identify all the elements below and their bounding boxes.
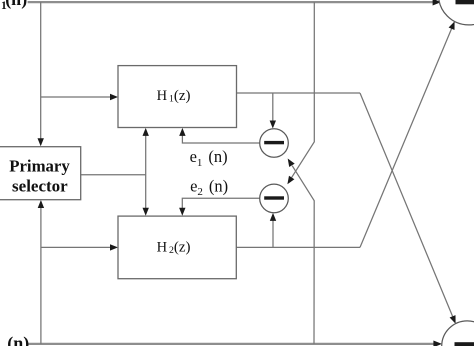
wire: branch up from H2 output into subtractor S2 — [272, 220, 274, 247]
wire: H2 output line — [237, 246, 361, 248]
svg-text:H1(z): H1(z) — [157, 88, 191, 105]
block H2: adaptive filter H2(z) — [118, 216, 236, 279]
wire: diagonal from H1 output to bottom-right output node — [360, 93, 453, 316]
e1 feedback wire from S1 to H1 — [182, 135, 260, 143]
block H1: adaptive filter H1(z) — [118, 66, 237, 128]
svg-text:selector: selector — [12, 176, 68, 195]
subtractor S2 — [260, 184, 289, 213]
e2 feedback wire from S2 to H2 — [182, 198, 260, 209]
wire: x2 reference tap up to subtractor S1 — [292, 166, 314, 344]
wire: Primary selector output to control line — [81, 174, 146, 176]
svg-text:Primary: Primary — [9, 157, 70, 176]
svg-text:(n): (n) — [5, 0, 27, 10]
wire: branch from top drop into H1 input — [41, 96, 111, 98]
svg-text:H2(z): H2(z) — [157, 239, 191, 256]
wire: H1 output line — [237, 92, 361, 94]
svg-text:e2 (n): e2 (n) — [190, 176, 228, 198]
block: Primary selector — [0, 147, 81, 200]
wire: branch down from H1 output into subtractor S1 — [272, 93, 274, 122]
wire: top bus line x1(n) — [28, 1, 434, 3]
wire: vertical drop from top bus to Primary selector — [40, 2, 42, 139]
svg-text:(n): (n) — [7, 333, 29, 346]
output node: top-right subtractor (partially clipped) — [439, 0, 474, 25]
output node: bottom-right subtractor (partially clipped) — [442, 321, 474, 346]
subtractor S1 — [260, 129, 289, 158]
wire: bottom bus line x2(n) — [27, 343, 435, 345]
svg-text:e1 (n): e1 (n) — [190, 147, 228, 169]
wire: double-headed control arrow between H1 and H2 — [145, 135, 147, 210]
wire: vertical rise from bottom bus to Primary selector — [40, 207, 42, 344]
wire: diagonal from H2 output to top-right output node — [360, 28, 452, 247]
wire: branch from bottom rise into H2 input — [41, 246, 111, 248]
wire: x1 reference tap down to subtractor S2 — [292, 2, 315, 178]
